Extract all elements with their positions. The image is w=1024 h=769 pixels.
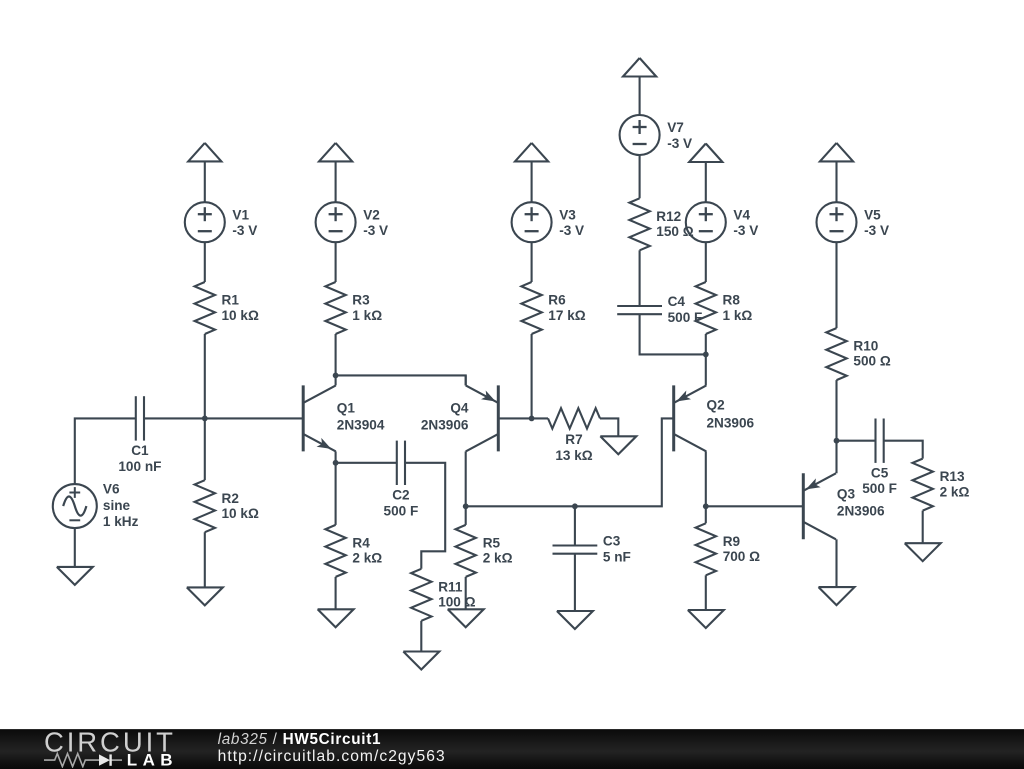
label R8 1 k bbox=[723, 293, 753, 323]
footer bar bbox=[0, 729, 1024, 769]
label V1 bbox=[232, 207, 257, 238]
label R5 2 k bbox=[483, 536, 513, 566]
wire R4 to ground bbox=[335, 577, 337, 609]
ground (Q3) bbox=[819, 587, 855, 605]
label R11 100 bbox=[438, 579, 475, 609]
svg-text:LAB: LAB bbox=[127, 750, 178, 768]
label R9 700 bbox=[723, 534, 760, 564]
resistor R1 bbox=[195, 282, 215, 334]
wire R10 to node E bbox=[835, 380, 837, 441]
wire node C to R4 bbox=[335, 463, 337, 525]
wire node I to R9 bbox=[705, 506, 707, 523]
wire R7 to ground bbox=[600, 418, 618, 436]
svg-text:17 kΩ: 17 kΩ bbox=[548, 308, 585, 323]
wire C1 to node A bbox=[145, 417, 205, 419]
node B junction (R3/Q1 collector/top wire) bbox=[333, 373, 339, 379]
label R1 10 k bbox=[222, 293, 259, 323]
svg-text:V6: V6 bbox=[103, 482, 120, 497]
svg-text:R9: R9 bbox=[723, 534, 741, 549]
resistor R8 bbox=[696, 282, 716, 334]
wire V5 flag to V5+ bbox=[835, 161, 837, 202]
voltage source V1 bbox=[185, 202, 225, 242]
svg-text:V3: V3 bbox=[559, 207, 576, 222]
label R7 13 k bbox=[555, 432, 592, 463]
svg-text:1 kΩ: 1 kΩ bbox=[352, 308, 382, 323]
capacitor C4 bbox=[617, 306, 662, 314]
svg-text:C3: C3 bbox=[603, 534, 621, 549]
label V7 bbox=[667, 120, 692, 151]
wire top rail to Q4 emitter bbox=[336, 375, 466, 385]
wire Q4 collector down bbox=[465, 451, 467, 506]
svg-text:V1: V1 bbox=[232, 207, 249, 222]
wire node I to Q3 base bbox=[706, 505, 804, 507]
wire V4- to R8 bbox=[705, 242, 707, 282]
svg-text:R1: R1 bbox=[222, 293, 240, 308]
svg-text:500 F: 500 F bbox=[384, 503, 419, 518]
node D junction (C4/R8/Q2 emitter) bbox=[703, 352, 709, 358]
transistor Q4 2N3906 bbox=[466, 385, 499, 451]
wire R6 to Q4 base node bbox=[531, 334, 533, 418]
svg-text:R11: R11 bbox=[438, 579, 463, 594]
wire C3 to ground bbox=[574, 554, 576, 611]
svg-text:10 kΩ: 10 kΩ bbox=[222, 506, 259, 521]
ground (R11) bbox=[403, 652, 439, 670]
label C4 500 F bbox=[668, 294, 703, 325]
ground (R9) bbox=[688, 610, 724, 628]
svg-text:R3: R3 bbox=[352, 293, 370, 308]
voltage source V5 bbox=[817, 202, 857, 242]
svg-text:R6: R6 bbox=[548, 293, 566, 308]
wire Q1 emitter down bbox=[335, 451, 337, 462]
transistor Q1 2N3904 bbox=[303, 385, 336, 451]
wire node A to Q1 base bbox=[205, 417, 303, 419]
node flag (power) for V1 bbox=[188, 143, 221, 162]
svg-text:-3 V: -3 V bbox=[559, 223, 584, 238]
label Q3 2N3906 bbox=[837, 487, 885, 519]
wire node H to Q2 base riser bbox=[575, 418, 674, 506]
node flag (power) for V3 bbox=[515, 143, 548, 162]
wire Q2 collector down bbox=[705, 451, 707, 506]
label R10 500 bbox=[853, 338, 890, 368]
voltage source V4 bbox=[686, 202, 726, 242]
svg-text:R10: R10 bbox=[853, 338, 878, 353]
voltage source V3 bbox=[512, 202, 552, 242]
capacitor C1 bbox=[136, 396, 144, 440]
wire R2 to ground bbox=[204, 532, 206, 587]
wire R8 to node D bbox=[705, 334, 707, 354]
wire R11 to ground bbox=[420, 621, 422, 652]
svg-text:R2: R2 bbox=[222, 491, 240, 506]
resistor R7 bbox=[548, 408, 600, 428]
capacitor C2 bbox=[397, 441, 405, 485]
svg-text:C4: C4 bbox=[668, 294, 686, 309]
svg-text:13 kΩ: 13 kΩ bbox=[555, 448, 592, 463]
svg-text:2 kΩ: 2 kΩ bbox=[483, 551, 513, 566]
label Q2 2N3906 bbox=[707, 398, 755, 431]
label Q4 2N3906 bbox=[421, 401, 469, 433]
resistor R5 bbox=[456, 525, 476, 577]
node H junction (C3) bbox=[572, 503, 578, 509]
wire Q3 collector to ground bbox=[835, 539, 837, 587]
label R3 1 k bbox=[352, 293, 382, 323]
svg-text:2N3906: 2N3906 bbox=[837, 504, 885, 519]
ground (R5) bbox=[448, 609, 484, 627]
wire node A to R2 bbox=[204, 418, 206, 480]
svg-text:2N3904: 2N3904 bbox=[337, 417, 385, 432]
label C3 5 nF bbox=[603, 534, 631, 565]
resistor R6 bbox=[521, 282, 541, 334]
svg-text:lab325 / HW5Circuit1: lab325 / HW5Circuit1 bbox=[218, 731, 382, 748]
svg-text:-3 V: -3 V bbox=[667, 136, 692, 151]
svg-text:2N3906: 2N3906 bbox=[707, 415, 755, 430]
node flag (power) for V2 bbox=[319, 143, 352, 162]
wire V2 flag to V2+ bbox=[335, 161, 337, 202]
label R6 17 k bbox=[548, 293, 585, 323]
svg-text:R13: R13 bbox=[940, 469, 965, 484]
svg-text:C2: C2 bbox=[392, 488, 410, 503]
ground (R13) bbox=[905, 543, 941, 561]
svg-text:-3 V: -3 V bbox=[363, 223, 388, 238]
svg-text:Q3: Q3 bbox=[837, 487, 856, 502]
svg-text:sine: sine bbox=[103, 498, 131, 513]
svg-text:100 nF: 100 nF bbox=[118, 459, 161, 474]
wire V5- to R10 bbox=[835, 242, 837, 328]
wire V6 to ground bbox=[74, 528, 76, 567]
capacitor C5 bbox=[876, 419, 884, 463]
signal source V6 (sine) bbox=[53, 484, 97, 528]
wire V3 flag to V3+ bbox=[531, 161, 533, 202]
label R12 150 bbox=[656, 209, 693, 239]
svg-text:V2: V2 bbox=[363, 207, 380, 222]
wire V7- to R12 bbox=[639, 155, 641, 198]
svg-text:R8: R8 bbox=[723, 293, 741, 308]
resistor R3 bbox=[325, 282, 345, 334]
node G junction (Q4 collector/R5/row) bbox=[463, 503, 469, 509]
resistor R10 bbox=[826, 328, 846, 380]
ground (R4) bbox=[318, 609, 354, 627]
svg-text:1 kΩ: 1 kΩ bbox=[723, 308, 753, 323]
wire Q1 collector up bbox=[335, 375, 337, 385]
svg-text:R4: R4 bbox=[352, 536, 370, 551]
wire C4 to node D bbox=[640, 314, 706, 354]
label V5 bbox=[864, 207, 889, 238]
wire C2 to R11 bbox=[405, 463, 445, 569]
svg-text:100 Ω: 100 Ω bbox=[438, 595, 475, 610]
ground (V6) bbox=[57, 567, 93, 585]
capacitor C3 bbox=[553, 546, 598, 554]
node F junction (R6/Q4 base/R7) bbox=[529, 416, 535, 422]
label C2 500 F bbox=[384, 488, 419, 519]
svg-text:10 kΩ: 10 kΩ bbox=[222, 308, 259, 323]
svg-text:-3 V: -3 V bbox=[232, 223, 257, 238]
node flag (power) for V7 bbox=[623, 58, 656, 77]
wire Q2 emitter to node D bbox=[705, 354, 707, 385]
CircuitLab logo bbox=[0, 729, 200, 768]
wire V1 flag to V1+ bbox=[204, 161, 206, 202]
label V4 bbox=[733, 207, 758, 238]
svg-text:500 F: 500 F bbox=[862, 481, 897, 496]
ground (C3) bbox=[557, 611, 593, 629]
transistor Q3 2N3906 bbox=[803, 473, 836, 539]
wire node G to R5 bbox=[465, 506, 467, 525]
svg-text:C1: C1 bbox=[131, 443, 149, 458]
node C junction (Q1 emitter/R4/C2) bbox=[333, 460, 339, 466]
label Q1 2N3904 bbox=[337, 401, 385, 433]
svg-text:http://circuitlab.com/c2gy563: http://circuitlab.com/c2gy563 bbox=[218, 748, 446, 765]
label V3 bbox=[559, 207, 584, 238]
voltage source V2 bbox=[316, 202, 356, 242]
svg-text:Q2: Q2 bbox=[707, 398, 726, 413]
node flag (power) for V5 bbox=[820, 143, 853, 162]
svg-text:2N3906: 2N3906 bbox=[421, 417, 469, 432]
ground (R2) bbox=[187, 587, 223, 605]
node E junction (R10/Q3 emitter/C5) bbox=[834, 438, 840, 444]
wire R3 to Q1 collector node bbox=[335, 334, 337, 375]
wire Q4 base to node F bbox=[498, 417, 531, 419]
label R13 2 k bbox=[940, 469, 970, 499]
svg-text:R7: R7 bbox=[565, 432, 582, 447]
svg-text:Q4: Q4 bbox=[450, 401, 469, 416]
wire Q3 emitter to node E bbox=[835, 441, 837, 474]
resistor R4 bbox=[325, 525, 345, 577]
wire C5 to R13 bbox=[884, 441, 923, 459]
wire node G to node H bbox=[466, 505, 575, 507]
label V6 sine 1 kHz bbox=[103, 482, 139, 530]
label R2 10 k bbox=[222, 491, 259, 521]
wire V3- to R6 bbox=[531, 242, 533, 282]
label C1 100 nF bbox=[118, 443, 161, 474]
svg-text:Q1: Q1 bbox=[337, 401, 356, 416]
wire R12 to C4 bbox=[639, 250, 641, 306]
wire C1 row from V6 bbox=[75, 418, 136, 484]
svg-text:-3 V: -3 V bbox=[864, 223, 889, 238]
svg-text:1 kHz: 1 kHz bbox=[103, 514, 139, 529]
transistor Q2 2N3906 bbox=[674, 385, 707, 451]
wire R1 to node A bbox=[204, 334, 206, 418]
wire node C to C2 bbox=[336, 462, 397, 464]
label V2 bbox=[363, 207, 388, 238]
svg-text:2 kΩ: 2 kΩ bbox=[352, 551, 382, 566]
svg-text:R5: R5 bbox=[483, 536, 501, 551]
node I junction (Q2 collector/R9/row) bbox=[703, 503, 709, 509]
label C5 500 F bbox=[862, 466, 897, 497]
wire R9 to ground bbox=[705, 575, 707, 610]
resistor R13 bbox=[913, 459, 933, 511]
wire V7 flag to V7+ bbox=[639, 77, 641, 116]
wire Q4 emitter up bbox=[465, 375, 467, 385]
svg-text:2 kΩ: 2 kΩ bbox=[940, 484, 970, 499]
wire V2- to R3 bbox=[335, 242, 337, 282]
svg-text:-3 V: -3 V bbox=[733, 223, 758, 238]
node flag (power) for V4 bbox=[689, 144, 722, 163]
svg-text:500 Ω: 500 Ω bbox=[853, 354, 890, 369]
svg-text:5 nF: 5 nF bbox=[603, 549, 631, 564]
svg-text:C5: C5 bbox=[871, 466, 889, 481]
ground (R7) bbox=[600, 436, 636, 454]
wire V4 flag to V4+ bbox=[705, 162, 707, 202]
resistor R11 bbox=[411, 569, 431, 621]
label R4 2 k bbox=[352, 536, 382, 566]
resistor R12 bbox=[629, 198, 649, 250]
svg-text:V4: V4 bbox=[733, 207, 750, 222]
wire V1- to R1 bbox=[204, 242, 206, 282]
svg-text:R12: R12 bbox=[656, 209, 681, 224]
node A junction (C1/R1/R2/Q1 base) bbox=[202, 416, 208, 422]
resistor R9 bbox=[696, 523, 716, 575]
wire node H to C3 bbox=[574, 506, 576, 545]
voltage source V7 bbox=[620, 115, 660, 155]
footer title text bbox=[210, 729, 770, 768]
wire node F to R7 bbox=[532, 417, 548, 419]
svg-text:700 Ω: 700 Ω bbox=[723, 549, 760, 564]
svg-text:V7: V7 bbox=[667, 120, 684, 135]
resistor R2 bbox=[195, 480, 215, 532]
svg-text:V5: V5 bbox=[864, 207, 881, 222]
wire R13 to ground bbox=[922, 511, 924, 544]
wire R5 to ground bbox=[465, 577, 467, 609]
wire node E to C5 bbox=[837, 440, 876, 442]
